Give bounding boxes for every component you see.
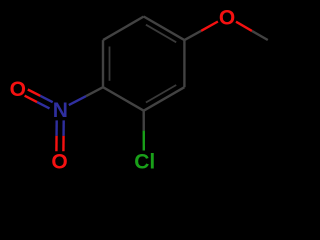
N=O2 double bond line B oxygen half xyxy=(62,136,65,151)
benzene ring edge T-TR xyxy=(144,17,185,41)
svg-text:Cl: Cl xyxy=(134,151,155,174)
N=O1 double bond line B nitrogen half xyxy=(37,102,49,108)
bond TR to O3, carbon half xyxy=(184,31,201,40)
molecule: 2-chloro-4-methoxy-1-nitrobenzene structure xyxy=(0,0,300,176)
aromatic inner line bottom-right edge xyxy=(146,85,176,103)
N=O2 double bond line B nitrogen half xyxy=(62,120,65,135)
N=O1 double bond line A nitrogen half xyxy=(40,96,52,102)
benzene ring edge TR-BR xyxy=(183,40,185,87)
bond B to Cl, chlorine half xyxy=(143,131,145,151)
bond TR to O3, oxygen half xyxy=(201,22,218,31)
benzene ring edge B-BL xyxy=(103,87,144,111)
bond O3 to methyl, carbon half xyxy=(252,31,268,40)
benzene ring edge BL-TL xyxy=(102,40,104,87)
svg-text:O: O xyxy=(51,150,67,173)
N=O2 double bond line A oxygen half xyxy=(55,136,58,151)
N=O1 double bond line A oxygen half xyxy=(28,90,40,96)
bond BL to N, carbon half xyxy=(86,87,103,96)
svg-text:O: O xyxy=(10,78,26,101)
bond BL to N, nitrogen half xyxy=(69,96,86,105)
aromatic inner line left edge xyxy=(109,47,111,81)
aromatic inner line top-right edge xyxy=(146,25,176,43)
bond O3 to methyl, oxygen half xyxy=(236,22,252,31)
bond B to Cl, carbon half xyxy=(142,111,144,131)
benzene ring edge BR-B xyxy=(144,87,185,111)
N=O2 double bond line A nitrogen half xyxy=(55,120,58,135)
svg-text:O: O xyxy=(219,6,235,29)
N=O1 double bond line B oxygen half xyxy=(25,96,37,102)
benzene ring edge TL-T xyxy=(103,17,144,41)
svg-text:N: N xyxy=(53,99,68,122)
